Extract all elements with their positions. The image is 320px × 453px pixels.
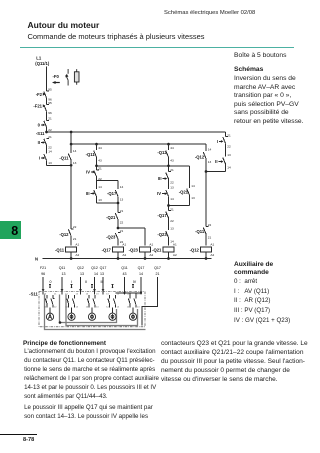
button unit 0 contacts: [44, 294, 58, 309]
svg-text:I: I: [39, 155, 40, 160]
junction x205.5 y171: [205, 170, 208, 173]
svg-text:-Q21: -Q21: [152, 248, 162, 253]
svg-text:III: III: [101, 280, 104, 284]
svg-text:-Q23: -Q23: [157, 232, 167, 237]
junction N x168: [167, 257, 170, 260]
junction x117.5 y227.5: [117, 227, 120, 230]
fuse F0 cartridge: [74, 72, 79, 82]
right column: auxiliaire list: [234, 261, 273, 278]
svg-text:Q17: Q17: [154, 266, 161, 270]
button unit IV operator: [129, 308, 136, 321]
svg-text:14: 14: [227, 165, 231, 169]
svg-text:Q12: Q12: [91, 266, 98, 270]
svg-text:13: 13: [48, 161, 52, 165]
svg-text:I: I: [71, 280, 72, 284]
svg-text:-S11: -S11: [36, 131, 45, 136]
NC contact 0 (21-22): [44, 120, 49, 132]
junction bus1-rail: [45, 131, 48, 134]
svg-text:14: 14: [94, 272, 98, 276]
svg-text:13: 13: [227, 153, 231, 157]
junction x117.5 y202.5: [117, 202, 120, 205]
svg-text:14: 14: [191, 184, 195, 188]
contact Q21 14-13 self-hold: [189, 166, 191, 188]
junction gray x59.7: [59, 321, 62, 324]
svg-text:-Q11: -Q11: [59, 155, 69, 160]
svg-text:0: 0: [50, 280, 52, 284]
junction IV bus x124: [123, 292, 125, 294]
svg-text:-Q11: -Q11: [86, 152, 96, 157]
svg-text:A2: A2: [210, 253, 214, 257]
svg-text:II: II: [38, 140, 40, 145]
svg-text:-Q12: -Q12: [59, 232, 69, 237]
svg-text:14: 14: [96, 306, 99, 308]
svg-text:13: 13: [137, 294, 140, 296]
svg-text:13: 13: [73, 161, 77, 165]
svg-text:13: 13: [98, 198, 102, 202]
button unit II operator: [88, 308, 95, 321]
header running title: [164, 10, 255, 16]
svg-text:A1: A1: [210, 243, 214, 247]
svg-text:III: III: [86, 191, 90, 196]
gray internal wiring path3: [45, 295, 146, 330]
gray internal wiring path1: [60, 295, 117, 323]
svg-text:0: 0: [38, 122, 41, 127]
svg-text:13: 13: [120, 198, 124, 202]
svg-text:22: 22: [48, 128, 52, 132]
svg-text:21: 21: [170, 207, 174, 211]
actuator mark button IV: [132, 285, 134, 288]
svg-text:21: 21: [120, 209, 124, 213]
svg-text:14: 14: [139, 272, 143, 276]
actuator mark button II: [91, 285, 93, 288]
wire branch to Q23 coil: [118, 228, 145, 245]
svg-text:13: 13: [65, 294, 68, 296]
svg-text:14: 14: [48, 150, 52, 154]
svg-text:F21: F21: [40, 266, 46, 270]
button unit IV contacts: [127, 294, 141, 309]
svg-text:14: 14: [120, 185, 124, 189]
svg-text:(Q11/1): (Q11/1): [35, 61, 50, 66]
gray internal wiring path2: [66, 295, 138, 326]
NC contact II (21-22): [44, 138, 49, 153]
svg-text:A2: A2: [122, 253, 126, 257]
NO contact II (13-14): [223, 157, 226, 171]
svg-text:Q12: Q12: [77, 266, 84, 270]
svg-text:95: 95: [48, 101, 52, 105]
NC contact I (21-22): [223, 136, 228, 156]
wire IV contact stubs: [130, 293, 136, 295]
wire Q12 column down: [205, 172, 207, 227]
svg-text:13: 13: [96, 294, 99, 296]
NC contact IV (21-22): [94, 166, 99, 181]
enclosure S11 dash-dot box: [39, 292, 145, 327]
NO contact III (13-14): [94, 181, 97, 204]
svg-text:-Q23: -Q23: [129, 248, 139, 253]
teal rule: [20, 47, 294, 48]
contact Q12 44-43: [168, 144, 170, 150]
wire bus2: [71, 143, 206, 145]
svg-text:13: 13: [170, 186, 174, 190]
svg-text:14: 14: [208, 147, 212, 151]
NO contact I (13-14): [44, 154, 47, 166]
svg-text:22: 22: [120, 221, 124, 225]
actuator mark button I: [70, 285, 72, 288]
svg-text:13: 13: [106, 294, 109, 296]
svg-text:-Q11: -Q11: [195, 229, 205, 234]
svg-text:21: 21: [98, 167, 102, 171]
footer page number: [0, 434, 37, 435]
svg-text:13: 13: [170, 227, 174, 231]
svg-text:21: 21: [73, 237, 77, 241]
wire entry arrow x42.6: [42, 289, 45, 292]
svg-text:21: 21: [227, 133, 231, 137]
svg-text:-F0: -F0: [53, 74, 60, 79]
wire bus3 feeding III-IV buttons: [97, 165, 190, 167]
svg-text:14: 14: [170, 197, 174, 201]
svg-text:22: 22: [170, 181, 174, 185]
svg-text:-Q12: -Q12: [190, 248, 200, 253]
svg-text:14: 14: [127, 306, 130, 308]
svg-text:-F21: -F21: [33, 104, 42, 109]
chapter tab 8: [0, 221, 21, 239]
svg-text:21: 21: [170, 168, 174, 172]
wire parallel top III/Q17: [97, 180, 119, 182]
wire entry arrow x102.5: [102, 289, 105, 292]
junction bus2 x96: [95, 143, 98, 146]
svg-text:14: 14: [44, 306, 47, 308]
wire parallel bottom II/Q12: [206, 171, 226, 173]
svg-text:N: N: [35, 256, 38, 261]
svg-text:A2: A2: [75, 253, 79, 257]
svg-text:14: 14: [106, 306, 109, 308]
svg-text:13: 13: [191, 196, 195, 200]
svg-text:21: 21: [48, 135, 52, 139]
svg-text:96: 96: [41, 272, 45, 276]
svg-text:22: 22: [73, 225, 77, 229]
svg-text:13: 13: [44, 294, 47, 296]
fuse-switch F0 symbol: [66, 69, 68, 86]
svg-text:-Q21: -Q21: [106, 215, 116, 220]
svg-text:44: 44: [98, 146, 102, 150]
svg-text:Q17: Q17: [138, 266, 145, 270]
svg-text:III: III: [158, 176, 162, 181]
svg-text:Q11: Q11: [121, 266, 128, 270]
svg-text:-Q12: -Q12: [195, 154, 205, 159]
svg-text:A1: A1: [122, 243, 126, 247]
svg-text:13: 13: [117, 294, 120, 296]
junction bus3 x168: [167, 164, 170, 167]
svg-text:21: 21: [208, 235, 212, 239]
svg-text:-Q23: -Q23: [106, 234, 116, 239]
svg-text:21: 21: [120, 229, 124, 233]
svg-text:13: 13: [208, 160, 212, 164]
junction x70.6 y164.8: [70, 164, 73, 167]
button unit III contacts: [106, 294, 120, 309]
svg-text:II: II: [85, 280, 87, 284]
svg-text:L1: L1: [36, 55, 42, 60]
svg-text:A2: A2: [149, 253, 153, 257]
footer text: [23, 340, 106, 347]
junction N x205.5: [205, 257, 208, 260]
wire entry arrow x61.5: [61, 289, 64, 292]
svg-text:13: 13: [127, 294, 130, 296]
svg-text:44: 44: [170, 146, 174, 150]
svg-text:Q11: Q11: [59, 266, 66, 270]
NO contact IV (13-14): [166, 179, 169, 206]
svg-text:96: 96: [48, 111, 52, 115]
junction x168 y205: [167, 204, 170, 207]
wire drop to bus2: [70, 132, 72, 144]
NC contact Q21 21-22: [117, 203, 119, 212]
junction N x70.6: [70, 257, 73, 260]
button unit I contacts: [65, 294, 79, 309]
wire parallel bottom III/Q17: [97, 202, 119, 204]
svg-text:14: 14: [117, 306, 120, 308]
contact Q17 14-13 self-hold: [117, 181, 119, 190]
right column: intro: [234, 52, 286, 59]
svg-text:43: 43: [98, 159, 102, 163]
svg-text:-S11: -S11: [29, 291, 38, 296]
wire parallel bottom I/Q11: [47, 164, 72, 166]
svg-text:21: 21: [48, 116, 52, 120]
svg-text:A1: A1: [149, 243, 153, 247]
junction IV bus x140.5: [140, 292, 142, 294]
svg-text:IV: IV: [157, 191, 161, 196]
svg-text:14: 14: [76, 306, 79, 308]
svg-text:14: 14: [65, 306, 68, 308]
NC contact III (21-22): [166, 172, 171, 179]
wire bus1: [47, 131, 226, 133]
svg-text:I: I: [217, 139, 218, 144]
wire right column drop: [225, 132, 227, 136]
button unit I operator: [68, 308, 75, 321]
junction bus2 x70.6: [70, 143, 73, 146]
wire IV feed bus: [115, 292, 141, 294]
junction N x117.5: [117, 257, 120, 260]
svg-text:22: 22: [170, 219, 174, 223]
svg-text:IV: IV: [86, 169, 90, 174]
svg-text:13: 13: [76, 294, 79, 296]
button unit II contacts: [86, 294, 100, 309]
svg-text:-F2: -F2: [36, 92, 43, 97]
junction N x144.5: [144, 257, 147, 260]
svg-text:14: 14: [137, 306, 140, 308]
svg-text:43: 43: [123, 272, 127, 276]
svg-text:A1: A1: [173, 243, 177, 247]
svg-text:14: 14: [86, 306, 89, 308]
page title: [28, 20, 100, 30]
actuator mark button 0: [49, 285, 51, 288]
contact Q11 44-43: [96, 144, 98, 150]
actuator mark button III: [111, 285, 113, 288]
NC contact Q17 21-22: [168, 206, 170, 211]
svg-text:-Q11: -Q11: [55, 248, 65, 253]
svg-text:-Q17: -Q17: [157, 213, 167, 218]
svg-text:13: 13: [100, 272, 104, 276]
wire left rail top segment: [46, 67, 48, 92]
wire entry arrow x94: [93, 289, 96, 292]
svg-text:II: II: [215, 159, 217, 164]
wire Q11 column down: [70, 165, 72, 229]
junction bus3 x96: [95, 164, 98, 167]
svg-text:21: 21: [54, 294, 57, 296]
svg-text:14: 14: [73, 149, 77, 153]
svg-text:A1: A1: [75, 243, 79, 247]
svg-text:21: 21: [156, 272, 160, 276]
svg-text:13: 13: [80, 272, 84, 276]
junction bus2 x168: [167, 143, 170, 146]
svg-text:A2: A2: [173, 253, 177, 257]
svg-text:95: 95: [48, 88, 52, 92]
svg-text:IV: IV: [133, 280, 137, 284]
svg-text:22: 22: [54, 306, 57, 308]
junction bus1 x70.6: [70, 131, 73, 134]
contact Q12 14-13 self-hold: [205, 144, 207, 151]
svg-text:13: 13: [62, 272, 66, 276]
svg-text:-Q17: -Q17: [102, 248, 112, 253]
svg-text:13: 13: [86, 294, 89, 296]
svg-text:Q17: Q17: [100, 266, 107, 270]
button unit 0 operator: [46, 308, 53, 321]
svg-text:43: 43: [170, 159, 174, 163]
button unit III operator: [109, 308, 116, 321]
svg-text:22: 22: [208, 223, 212, 227]
wire terminal drops: [43, 277, 157, 326]
svg-text:14: 14: [98, 185, 102, 189]
wire parallel bottom IV/Q21: [169, 205, 190, 207]
wire entry arrow x80: [79, 289, 82, 292]
svg-text:22: 22: [227, 144, 231, 148]
